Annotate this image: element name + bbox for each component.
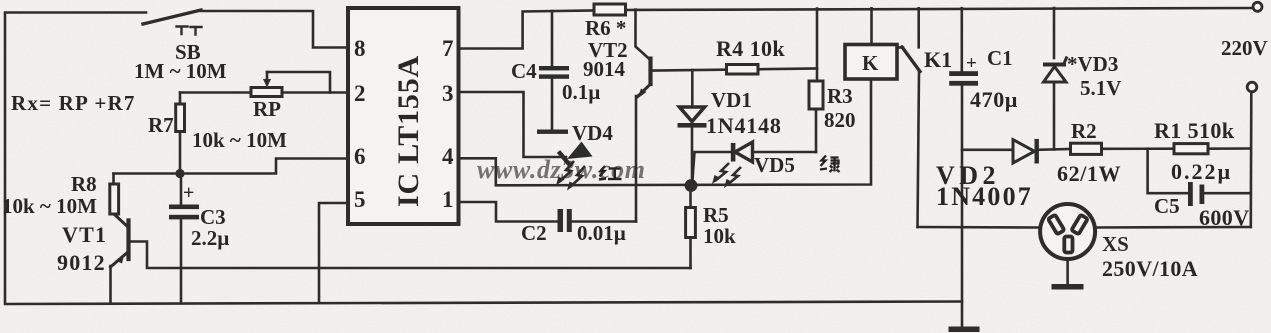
svg-text:R7: R7 [148, 113, 174, 137]
svg-text:Rx= RP +R7: Rx= RP +R7 [11, 91, 136, 115]
svg-text:220V: 220V [1221, 36, 1268, 60]
svg-text:2.2µ: 2.2µ [191, 226, 229, 250]
svg-text:R3: R3 [827, 84, 853, 108]
svg-text:5: 5 [354, 187, 366, 212]
svg-text:+: + [966, 53, 977, 74]
svg-text:5.1V: 5.1V [1080, 76, 1121, 100]
svg-text:8: 8 [354, 36, 366, 61]
svg-text:10k ~ 10M: 10k ~ 10M [2, 194, 97, 218]
svg-text:600V: 600V [1199, 205, 1250, 230]
svg-text:XS: XS [1102, 232, 1129, 256]
svg-text:0.01µ: 0.01µ [577, 221, 626, 245]
svg-text:VT1: VT1 [62, 222, 107, 247]
svg-text:0.1µ: 0.1µ [562, 80, 600, 104]
svg-text:3: 3 [442, 81, 454, 106]
svg-text:R8: R8 [71, 172, 97, 196]
svg-text:+: + [183, 182, 194, 204]
svg-text:R6 *: R6 * [585, 16, 626, 40]
svg-text:IC LT155A: IC LT155A [392, 55, 425, 207]
svg-text:7: 7 [442, 36, 454, 61]
svg-text:1N4148: 1N4148 [706, 113, 782, 138]
svg-text:470µ: 470µ [970, 87, 1018, 112]
svg-text:C1: C1 [987, 46, 1013, 70]
svg-text:RP: RP [253, 97, 281, 121]
svg-text:1M ~ 10M: 1M ~ 10M [134, 59, 227, 83]
svg-text:R2: R2 [1071, 119, 1097, 143]
svg-text:K1: K1 [924, 47, 952, 72]
svg-text:C4: C4 [511, 59, 537, 83]
svg-text:*VD3: *VD3 [1067, 52, 1118, 76]
svg-text:1: 1 [442, 187, 454, 212]
svg-text:62/1W: 62/1W [1057, 161, 1121, 186]
svg-text:R1 510k: R1 510k [1154, 118, 1235, 143]
svg-text:VD1: VD1 [711, 88, 752, 112]
svg-text:250V/10A: 250V/10A [1102, 256, 1198, 281]
svg-text:0.22µ: 0.22µ [1171, 159, 1232, 184]
svg-text:VD5: VD5 [754, 153, 795, 177]
svg-text:VD4: VD4 [572, 121, 613, 145]
svg-text:820: 820 [824, 108, 856, 132]
svg-text:9012: 9012 [57, 250, 106, 275]
svg-text:1N4007: 1N4007 [936, 182, 1033, 211]
svg-text:10k ~ 10M: 10k ~ 10M [192, 128, 287, 152]
svg-text:10k: 10k [703, 224, 736, 248]
svg-text:6: 6 [354, 144, 366, 169]
svg-text:C5: C5 [1154, 194, 1180, 218]
svg-text:2: 2 [354, 81, 366, 106]
svg-text:9014: 9014 [583, 57, 626, 81]
svg-text:K: K [862, 51, 879, 75]
svg-text:4: 4 [442, 144, 454, 169]
svg-text:R4 10k: R4 10k [716, 36, 785, 61]
svg-text:C2: C2 [521, 221, 547, 245]
